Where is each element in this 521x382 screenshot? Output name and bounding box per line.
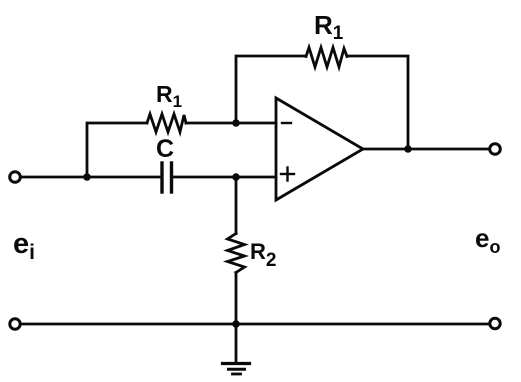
svg-text:eo: eo: [475, 223, 500, 257]
ground bar 1: [223, 362, 250, 365]
ground stub: [235, 324, 238, 362]
wire bottom rail: [21, 323, 489, 326]
terminal input ei: [10, 172, 21, 183]
wire input row right segment to non-inverting input: [174, 176, 277, 179]
wire R2 branch vertical upper: [235, 177, 238, 234]
op-amp minus pin mark: [282, 122, 291, 124]
node input junction: [83, 173, 91, 181]
terminal bottom right: [490, 318, 500, 328]
svg-text:ei: ei: [13, 228, 35, 264]
node ground junction: [232, 320, 240, 328]
op-amp U1 triangle: [276, 98, 363, 200]
node non-inverting junction: [232, 173, 240, 181]
ground bar 2: [229, 368, 245, 371]
terminal bottom left: [10, 319, 20, 329]
svg-text:R1: R1: [314, 10, 344, 44]
op-amp plus pin mark: [281, 173, 294, 175]
node output junction: [404, 145, 412, 153]
wire middle row to inverting input: [186, 122, 276, 125]
svg-text:R1: R1: [156, 81, 182, 111]
svg-text:R2: R2: [250, 239, 276, 271]
wire output row: [363, 148, 489, 151]
capacitor C plates: [160, 163, 163, 192]
wire middle row left vertical from input node: [87, 123, 147, 177]
ground bar 3: [233, 373, 241, 376]
resistor R1 (middle) zigzag: [147, 114, 186, 132]
wire top rail right to output node: [347, 56, 408, 149]
wire input row left segment: [21, 176, 160, 179]
wire R2 branch vertical lower: [235, 273, 238, 325]
terminal output eo: [490, 144, 501, 155]
resistor R1 (top feedback) zigzag: [306, 48, 347, 68]
node inverting junction: [232, 119, 240, 127]
resistor R2 zigzag: [228, 234, 245, 273]
svg-text:C: C: [156, 135, 174, 163]
wire top feedback rail: [236, 56, 306, 123]
